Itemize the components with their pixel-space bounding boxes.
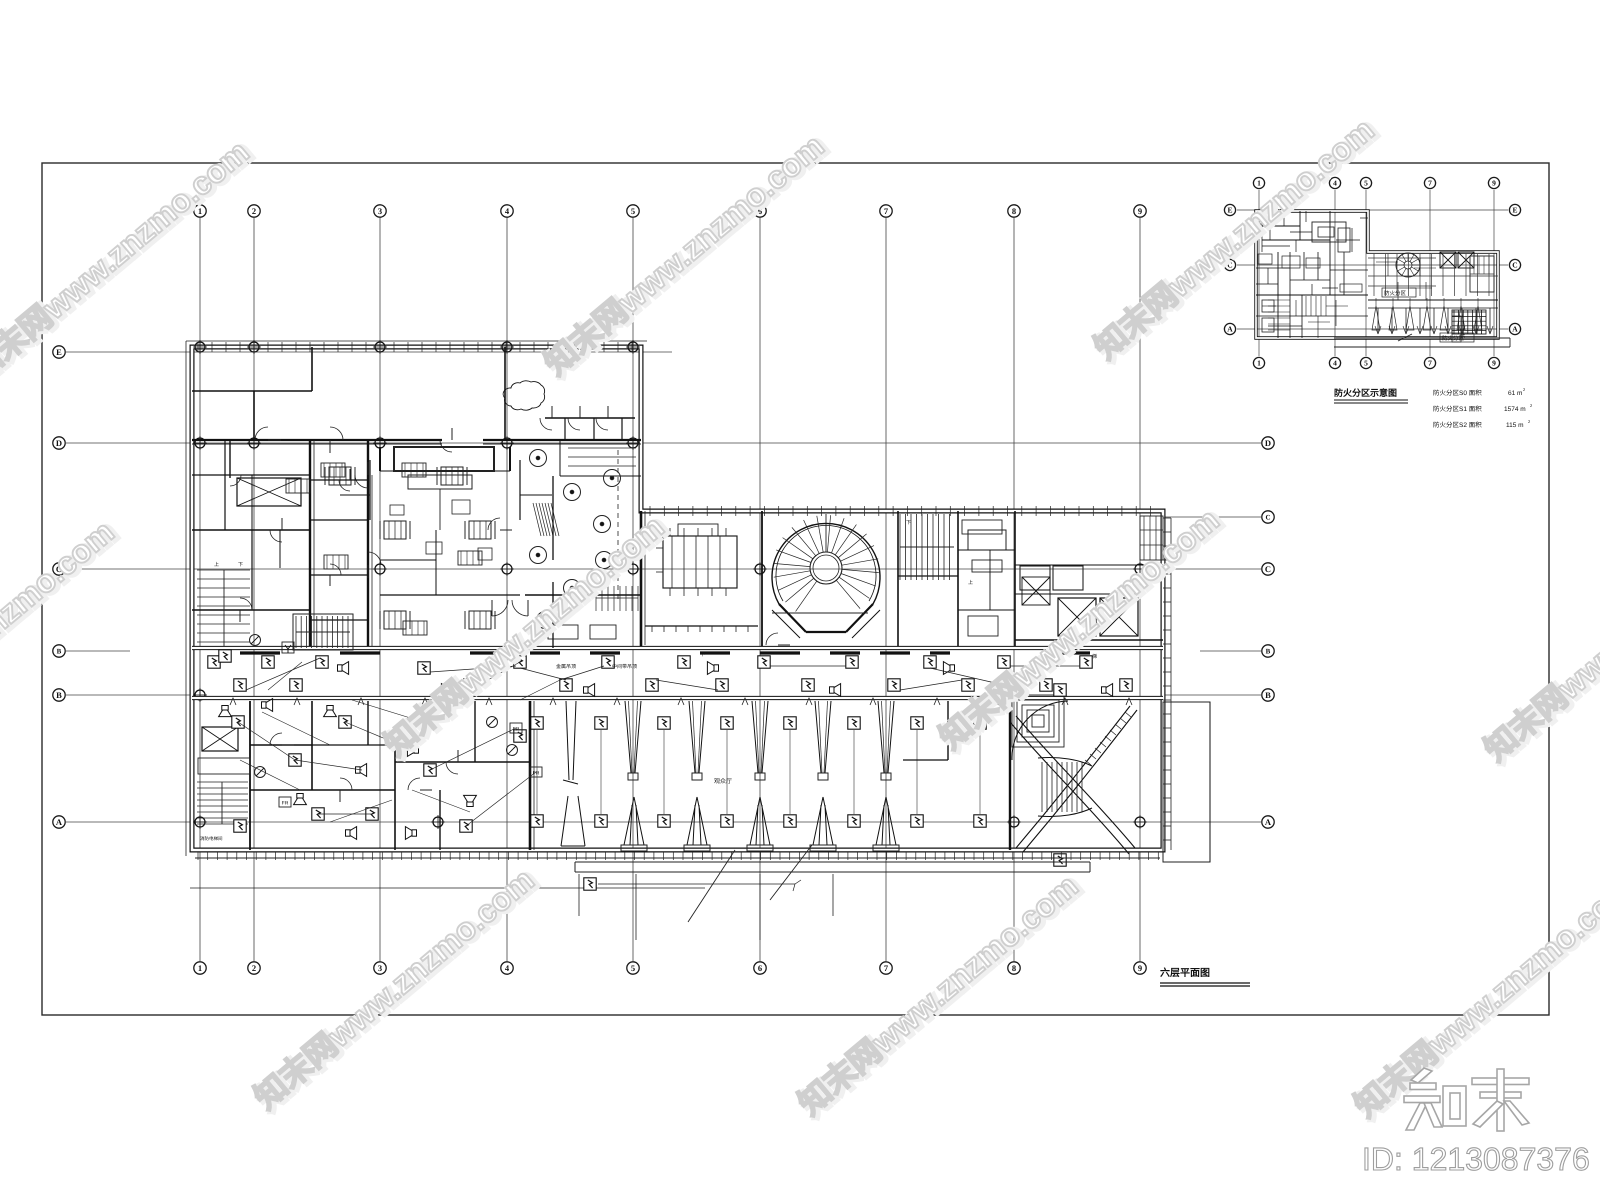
signal box S xyxy=(911,815,923,827)
void room bottom wall xyxy=(645,625,758,627)
door xyxy=(240,598,252,610)
grid bubble 1 xyxy=(194,962,206,974)
signal box S xyxy=(1040,679,1052,691)
znzmo logo 知 xyxy=(1404,1068,1466,1130)
small plan axis 1 xyxy=(1258,190,1260,356)
svg-text:ID: 1213087376: ID: 1213087376 xyxy=(1362,1141,1590,1177)
small escalator hatches xyxy=(533,503,541,536)
grid bubble 7 xyxy=(1424,357,1435,368)
terrace tick band xyxy=(195,857,1160,859)
grid axis 6 line xyxy=(759,218,761,961)
fire zone labels xyxy=(1382,288,1416,297)
east facade ticks xyxy=(1163,517,1171,519)
corridor south wall xyxy=(192,696,1163,700)
signal box S xyxy=(888,679,900,691)
door xyxy=(270,733,282,745)
speaker xyxy=(707,662,718,675)
signal box S xyxy=(262,656,274,668)
door xyxy=(255,427,268,440)
svg-text:5: 5 xyxy=(1364,179,1368,188)
spiral room walls xyxy=(772,612,868,614)
watermark xyxy=(537,126,834,384)
signal box S xyxy=(219,650,231,662)
watermark xyxy=(932,500,1229,758)
small plan upper-left extra density xyxy=(1261,218,1263,252)
signal box S xyxy=(716,679,728,691)
revision cloud xyxy=(503,381,544,410)
signal box S xyxy=(464,679,476,691)
grid bubble 4 xyxy=(501,962,513,974)
hall west wall xyxy=(529,701,532,850)
corridor leader lines xyxy=(246,658,320,690)
signal box S xyxy=(848,717,860,729)
signal box S xyxy=(1080,656,1092,668)
signal box S xyxy=(289,754,301,766)
speaker xyxy=(346,827,357,840)
storeroom partition walls upper-left xyxy=(192,390,312,392)
signal box S xyxy=(424,764,436,776)
corridor left symbols xyxy=(250,635,261,646)
left room partitions xyxy=(309,440,311,648)
standing cones xyxy=(624,797,644,845)
svg-text:B: B xyxy=(56,690,62,700)
signal box S xyxy=(924,656,936,668)
signal box S xyxy=(848,815,860,827)
signal box S xyxy=(595,717,607,729)
grid axis 7 line xyxy=(885,218,887,961)
grid bubble 9 xyxy=(1488,177,1499,188)
grid bubble B xyxy=(53,645,65,657)
corridor arrows xyxy=(230,698,236,705)
curtain dashed line xyxy=(617,450,619,600)
grid axis 1/B line left xyxy=(66,650,130,652)
leader lines lower-left xyxy=(430,728,516,770)
svg-text:E: E xyxy=(56,347,62,357)
drawing frame border xyxy=(42,163,1549,1015)
watermark xyxy=(1087,110,1384,368)
inner hall walls around stage xyxy=(369,460,371,520)
speaker xyxy=(464,795,477,806)
door xyxy=(339,480,350,491)
speaker xyxy=(262,699,273,712)
grid axis 2 line xyxy=(253,218,255,961)
signal box S xyxy=(339,716,351,728)
grid bubble 2 xyxy=(248,962,260,974)
svg-text:消防电梯间: 消防电梯间 xyxy=(200,836,223,841)
svg-text:梯: 梯 xyxy=(1092,653,1097,660)
window ticks right wing top wall xyxy=(649,506,651,516)
door xyxy=(488,518,500,530)
watermark xyxy=(0,512,124,770)
speaker xyxy=(405,827,416,840)
svg-text:9: 9 xyxy=(1138,963,1142,973)
grid bubble 4 xyxy=(1329,357,1340,368)
speaker xyxy=(338,662,349,675)
grid bubble 1 xyxy=(1253,357,1264,368)
grid bubble E xyxy=(53,346,65,358)
svg-text:防火分区S1 面积: 防火分区S1 面积 xyxy=(1433,405,1482,413)
grid axis 1/C line xyxy=(1162,516,1261,518)
signal box S xyxy=(974,815,986,827)
svg-text:下: 下 xyxy=(238,562,243,568)
svg-text:FR: FR xyxy=(513,727,520,733)
svg-text:1: 1 xyxy=(198,963,202,973)
svg-text:7: 7 xyxy=(1428,359,1432,368)
more downlights xyxy=(596,552,613,569)
column mark xyxy=(193,340,207,354)
column mark xyxy=(626,562,640,576)
elevator shaft xyxy=(1100,598,1138,636)
grid bubble 4 xyxy=(1329,177,1340,188)
grid bubble 8 xyxy=(1008,962,1020,974)
door xyxy=(408,778,420,790)
svg-text:4: 4 xyxy=(1333,359,1337,368)
signal box S xyxy=(784,717,796,729)
small plan lower extension xyxy=(1334,337,1510,339)
stage block xyxy=(394,447,494,471)
section cut diagonals xyxy=(688,850,735,922)
svg-text:B: B xyxy=(1265,690,1271,700)
small plan axis 4 xyxy=(1334,190,1336,356)
grid bubble B xyxy=(1262,689,1274,701)
right room shelves xyxy=(568,447,636,449)
svg-text:防火分区: 防火分区 xyxy=(1442,335,1465,342)
svg-text:上: 上 xyxy=(968,579,973,586)
small plan axis 9 xyxy=(1493,190,1495,356)
column mark xyxy=(500,340,514,354)
banquet room partitions xyxy=(525,594,641,596)
signal box S xyxy=(802,679,814,691)
grid axis 4 line xyxy=(506,218,508,961)
watermark xyxy=(0,132,259,390)
signal box S xyxy=(658,815,670,827)
grid bubble 6 xyxy=(754,962,766,974)
speaker xyxy=(324,706,337,717)
signal box S xyxy=(514,730,526,742)
grid axis 5 line xyxy=(632,218,634,961)
speaker xyxy=(294,794,307,805)
escalator big arc xyxy=(1012,701,1068,760)
column mark xyxy=(500,436,514,450)
small plan outer walls xyxy=(1256,211,1498,338)
downlight symbols xyxy=(530,450,547,467)
small plan axis 5 xyxy=(1365,190,1367,356)
hanging trusses xyxy=(625,701,631,773)
signal box S xyxy=(418,662,430,674)
column mark xyxy=(1007,688,1021,702)
signal box S xyxy=(584,878,596,890)
grid bubble E xyxy=(1509,204,1520,215)
grid bubble 9 xyxy=(1134,962,1146,974)
svg-text:A: A xyxy=(1265,817,1272,827)
grid axis D line xyxy=(66,442,1261,444)
door xyxy=(355,475,368,488)
straight stair right of spiral xyxy=(899,514,901,580)
grid bubble D xyxy=(53,437,65,449)
column mark xyxy=(1133,815,1147,829)
svg-text:E: E xyxy=(1512,206,1517,215)
elevator shaft xyxy=(237,478,301,506)
corridor dark threshold segments xyxy=(240,651,280,654)
conference chairs xyxy=(669,528,671,536)
speaker xyxy=(407,744,418,757)
speaker xyxy=(584,684,595,697)
grid bubble A xyxy=(53,816,65,828)
grid bubble 2 xyxy=(248,205,260,217)
svg-text:1: 1 xyxy=(1257,359,1261,368)
speaker xyxy=(943,662,954,675)
grid bubble 8 xyxy=(1008,205,1020,217)
elevator shaft xyxy=(1022,577,1050,605)
small plan axis C xyxy=(1237,264,1508,266)
svg-text:金属吊顶: 金属吊顶 xyxy=(556,663,576,670)
signal box S xyxy=(974,717,986,729)
svg-text:1574 m: 1574 m xyxy=(1504,406,1526,413)
svg-text:FR: FR xyxy=(282,801,289,807)
signal box S xyxy=(962,679,974,691)
svg-text:下: 下 xyxy=(906,520,911,526)
signal box S xyxy=(721,815,733,827)
svg-text:C: C xyxy=(1265,514,1270,522)
speaker xyxy=(356,764,367,777)
signal box S xyxy=(560,679,572,691)
grid axis 1/B line right xyxy=(1200,650,1261,652)
hall-right divider wall xyxy=(552,476,554,560)
svg-text:5: 5 xyxy=(631,963,635,973)
lower roof outline xyxy=(575,861,1090,863)
left pylon xyxy=(561,796,585,846)
column mark xyxy=(193,436,207,450)
right extension strip xyxy=(1163,702,1210,862)
small plan mini cones xyxy=(1372,306,1380,330)
grid bubble 5 xyxy=(627,205,639,217)
grid axis E line xyxy=(66,351,672,353)
spiral landing walls xyxy=(779,604,873,632)
elevator shaft xyxy=(1458,252,1474,268)
signal box S xyxy=(846,656,858,668)
grid bubble 9 xyxy=(1134,205,1146,217)
small plan axis 7 xyxy=(1429,190,1431,356)
wall below upper block xyxy=(640,511,643,648)
svg-text:2: 2 xyxy=(252,963,256,973)
door xyxy=(440,440,452,452)
svg-text:B: B xyxy=(57,648,62,656)
more partitions upper-left xyxy=(224,440,226,530)
watermark xyxy=(791,866,1088,1124)
signal box S xyxy=(721,717,733,729)
spiral stair xyxy=(772,523,880,604)
grid axis B line right xyxy=(1165,694,1261,696)
svg-text:防火分区: 防火分区 xyxy=(1384,290,1407,297)
lower-left partitions xyxy=(249,701,251,850)
door xyxy=(368,552,381,565)
grid bubble C xyxy=(1224,259,1235,270)
column mark xyxy=(373,340,387,354)
column mark xyxy=(753,562,767,576)
signal box S xyxy=(232,716,244,728)
grid axis C line xyxy=(66,568,1261,570)
watermark xyxy=(247,860,544,1118)
svg-text:9: 9 xyxy=(1492,179,1496,188)
grid axis 9 line xyxy=(1139,218,1141,961)
grid axis B line left xyxy=(66,694,192,696)
door xyxy=(540,418,552,430)
hall east wall xyxy=(1009,701,1011,850)
svg-text:3: 3 xyxy=(378,206,382,216)
small plan stair hatches left xyxy=(1268,299,1290,301)
column mark xyxy=(193,815,207,829)
grid bubble A xyxy=(1262,816,1274,828)
signal box S xyxy=(646,679,658,691)
svg-text:115 m: 115 m xyxy=(1506,422,1524,429)
svg-text:9: 9 xyxy=(1138,206,1142,216)
small plan mid band extra xyxy=(1376,261,1398,263)
door xyxy=(230,475,241,486)
speaker xyxy=(441,684,452,697)
grid bubble D xyxy=(1262,437,1274,449)
svg-text:5: 5 xyxy=(1364,359,1368,368)
signal box S xyxy=(784,815,796,827)
crossing escalators xyxy=(1016,706,1137,852)
column mark xyxy=(373,436,387,450)
svg-text:A: A xyxy=(56,817,63,827)
signal box S xyxy=(531,815,543,827)
watermark xyxy=(1347,868,1600,1126)
door xyxy=(568,418,580,430)
lower-left stair xyxy=(197,781,248,783)
signal box S xyxy=(208,656,220,668)
grid bubble A xyxy=(1509,323,1520,334)
svg-text:1: 1 xyxy=(1257,179,1261,188)
outer walls of main plan xyxy=(192,347,1163,850)
svg-text:C: C xyxy=(1265,564,1271,574)
svg-text:A: A xyxy=(1227,325,1233,334)
extra leaders lower-left xyxy=(262,712,330,745)
column mark xyxy=(431,815,445,829)
elevator shaft xyxy=(202,727,238,751)
grid bubble 7 xyxy=(880,962,892,974)
grid bubble 9 xyxy=(1488,357,1499,368)
FR devices xyxy=(487,717,498,728)
svg-text:9: 9 xyxy=(1492,359,1496,368)
elevator cluster xyxy=(1020,566,1050,590)
grid bubble C xyxy=(1262,563,1274,575)
door xyxy=(330,427,343,440)
signal box S xyxy=(658,717,670,729)
duct hatched rects xyxy=(321,463,345,477)
grid bubble B xyxy=(1262,645,1274,657)
elevator shaft xyxy=(1440,252,1456,268)
door xyxy=(766,633,778,645)
speaker xyxy=(1102,684,1113,697)
corridor north wall xyxy=(192,646,1163,650)
svg-text:防火分区S2 面积: 防火分区S2 面积 xyxy=(1433,421,1482,429)
grid axis 8 line xyxy=(1013,218,1015,961)
grid bubble 4 xyxy=(501,205,513,217)
column mark xyxy=(500,562,514,576)
svg-text:观众厅: 观众厅 xyxy=(714,777,732,785)
signal box S xyxy=(234,679,246,691)
signal box S xyxy=(316,656,328,668)
svg-text:防火分区示意图: 防火分区示意图 xyxy=(1334,388,1397,398)
grid bubble A xyxy=(1224,323,1235,334)
grid bubble C xyxy=(1262,511,1274,523)
grid bubble C xyxy=(53,563,65,575)
svg-text:3: 3 xyxy=(378,963,382,973)
wall x762 xyxy=(761,511,763,648)
grid bubble 3 xyxy=(374,962,386,974)
column mark xyxy=(626,436,640,450)
signal box S xyxy=(911,717,923,729)
svg-text:6: 6 xyxy=(758,963,762,973)
svg-text:C: C xyxy=(1512,261,1517,270)
signal box S xyxy=(460,820,472,832)
watermark xyxy=(1477,512,1600,770)
parapet line above top wall xyxy=(186,340,647,342)
stair to corridor axis2-3 xyxy=(295,616,297,648)
private room doors row xyxy=(545,417,635,419)
svg-text:8: 8 xyxy=(1012,963,1016,973)
znzmo logo 末 xyxy=(1472,1069,1529,1131)
upper-left stair xyxy=(197,569,250,571)
column mark xyxy=(373,562,387,576)
svg-text:上: 上 xyxy=(214,561,219,568)
grid bubble 5 xyxy=(1360,177,1371,188)
svg-text:六层平面图: 六层平面图 xyxy=(1160,967,1210,979)
svg-text:E: E xyxy=(1227,206,1232,215)
stage enclosure emphasis xyxy=(379,447,381,471)
signal box S xyxy=(1054,854,1066,866)
signal box S xyxy=(602,656,614,668)
short pylon x571 xyxy=(566,701,569,780)
door xyxy=(596,418,608,430)
control room xyxy=(968,530,1006,550)
svg-text:防火分区S0 面积: 防火分区S0 面积 xyxy=(1433,389,1482,397)
door xyxy=(512,600,528,616)
small plan axis E xyxy=(1237,209,1508,211)
signal box S xyxy=(514,656,526,668)
door xyxy=(340,778,352,790)
straight stair treads escalator zone xyxy=(1041,762,1043,812)
grid bubble 7 xyxy=(880,205,892,217)
window ticks top wall xyxy=(197,342,199,352)
signal box S xyxy=(758,656,770,668)
signal box S xyxy=(678,656,690,668)
column mark xyxy=(193,688,207,702)
signal box S xyxy=(1120,679,1132,691)
svg-text:B: B xyxy=(1266,648,1271,656)
svg-text:D: D xyxy=(56,438,62,448)
grid axis A line xyxy=(66,821,1261,823)
signal box S xyxy=(366,808,378,820)
door xyxy=(270,530,282,542)
grid bubble 6 xyxy=(754,205,766,217)
grid bubble E xyxy=(1224,204,1235,215)
line-array speaker clusters xyxy=(384,521,406,539)
watermark xyxy=(377,507,674,765)
small plan dense hatch xyxy=(1373,254,1375,296)
signal box S xyxy=(312,808,324,820)
door xyxy=(446,762,458,774)
grid bubble 3 xyxy=(374,205,386,217)
hall furniture xyxy=(452,500,470,514)
grid axis 3 line xyxy=(379,218,381,961)
grid bubble C xyxy=(1509,259,1520,270)
column mark xyxy=(1007,815,1021,829)
signal box S xyxy=(595,815,607,827)
column mark xyxy=(247,436,261,450)
svg-text:61 m: 61 m xyxy=(1508,390,1522,397)
